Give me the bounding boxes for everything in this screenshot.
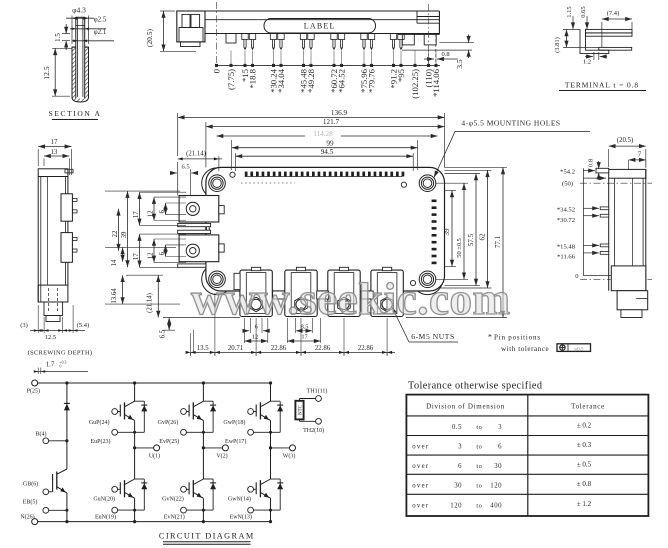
svg-text:17: 17: [301, 334, 307, 341]
svg-text:0.8: 0.8: [588, 158, 595, 167]
svg-text:39: 39: [443, 228, 451, 236]
svg-text:(102.25): (102.25): [410, 69, 420, 99]
svg-text:GB(6): GB(6): [23, 480, 38, 487]
svg-text:62: 62: [479, 233, 487, 241]
svg-text:6-M5 NUTS: 6-M5 NUTS: [411, 332, 455, 341]
svg-text:(50): (50): [562, 181, 573, 188]
svg-text:1.15: 1.15: [566, 6, 573, 17]
svg-text:to: to: [476, 444, 482, 451]
svg-text:TH1(11): TH1(11): [307, 387, 328, 394]
svg-text:EwP(17): EwP(17): [225, 438, 246, 445]
svg-text:121.7: 121.7: [323, 118, 340, 126]
svg-text:17: 17: [133, 211, 140, 218]
svg-text:*11.66: *11.66: [557, 254, 576, 261]
svg-text:www.seekic.com: www.seekic.com: [191, 274, 510, 324]
svg-text:(20.5): (20.5): [617, 137, 633, 144]
svg-text:13: 13: [51, 149, 58, 156]
svg-text:φ0.5: φ0.5: [574, 347, 584, 352]
svg-text:EuP(23): EuP(23): [91, 438, 111, 445]
svg-text:(3.81): (3.81): [554, 37, 561, 53]
svg-text:(7.75): (7.75): [226, 69, 236, 90]
svg-text:V(2): V(2): [216, 453, 227, 460]
svg-text:*114.06: *114.06: [431, 68, 441, 97]
svg-text:Tolerance: Tolerance: [571, 403, 605, 411]
svg-text:4-φ5.5 MOUNTING HOLES: 4-φ5.5 MOUNTING HOLES: [461, 119, 560, 128]
svg-text:0: 0: [60, 365, 62, 369]
svg-text:EvN(21): EvN(21): [164, 513, 185, 520]
svg-text:39: 39: [121, 231, 128, 238]
svg-text:22.86: 22.86: [358, 345, 374, 352]
svg-text:17: 17: [51, 139, 58, 146]
svg-text:22.86: 22.86: [271, 345, 287, 352]
svg-text:8.5: 8.5: [301, 323, 309, 330]
svg-text:12: 12: [148, 210, 155, 217]
svg-text:17: 17: [133, 253, 140, 260]
svg-text:114.28: 114.28: [313, 130, 333, 138]
svg-text:50 ±0.5: 50 ±0.5: [456, 238, 463, 257]
svg-text:6: 6: [159, 210, 166, 214]
svg-text:94.5: 94.5: [321, 148, 334, 156]
svg-text:GwP(18): GwP(18): [223, 419, 245, 426]
svg-text:to: to: [476, 483, 482, 490]
svg-text:Division of Dimension: Division of Dimension: [426, 403, 505, 411]
svg-text:30: 30: [454, 483, 462, 490]
svg-text:EB(5): EB(5): [23, 499, 38, 506]
svg-text:0.5: 0.5: [452, 424, 462, 431]
svg-text:0: 0: [211, 68, 221, 73]
svg-text:φ4.3: φ4.3: [72, 6, 86, 15]
svg-text:57.5: 57.5: [467, 233, 475, 246]
svg-text:(21.14): (21.14): [186, 150, 206, 157]
svg-text:12: 12: [148, 252, 155, 259]
svg-text:*18.8: *18.8: [247, 68, 257, 88]
svg-text:TH2(10): TH2(10): [303, 427, 324, 434]
svg-text:20.71: 20.71: [228, 345, 243, 352]
svg-text:6.5: 6.5: [160, 329, 167, 338]
svg-text:B(4): B(4): [36, 430, 47, 437]
svg-text:to: to: [476, 463, 482, 470]
svg-text:*95: *95: [396, 69, 406, 82]
svg-text:*79.76: *79.76: [366, 68, 376, 93]
svg-text:22: 22: [112, 230, 119, 237]
svg-text:1.5: 1.5: [54, 33, 62, 42]
svg-text:3: 3: [498, 424, 502, 431]
svg-text:± 0.3: ± 0.3: [577, 441, 592, 449]
svg-text:SECTION A: SECTION A: [49, 109, 102, 118]
svg-text:EuN(19): EuN(19): [95, 513, 116, 520]
svg-text:φ2.1: φ2.1: [94, 28, 107, 36]
svg-text:to: to: [476, 424, 482, 431]
svg-text:± 0.2: ± 0.2: [577, 421, 592, 429]
svg-text:± 0.8: ± 0.8: [577, 480, 592, 488]
svg-text:(SCREWING DEPTH): (SCREWING DEPTH): [28, 350, 93, 357]
svg-text:GwN(14): GwN(14): [228, 495, 251, 502]
svg-text:400: 400: [490, 503, 502, 510]
svg-text:φ2.5: φ2.5: [94, 16, 107, 24]
svg-text:± 1.2: ± 1.2: [577, 500, 592, 508]
svg-text:120: 120: [490, 483, 502, 490]
svg-text:NTC: NTC: [299, 404, 304, 415]
svg-text:(5.4): (5.4): [77, 322, 89, 329]
svg-text:13.5: 13.5: [197, 345, 209, 352]
svg-text:22.86: 22.86: [315, 345, 331, 352]
svg-text:12.5: 12.5: [45, 334, 56, 341]
svg-text:± 0.5: ± 0.5: [577, 461, 592, 469]
svg-text:EwN(13): EwN(13): [230, 513, 252, 520]
svg-text:120: 120: [450, 503, 462, 510]
svg-text:GuN(20): GuN(20): [93, 495, 115, 502]
svg-text:*49.28: *49.28: [306, 68, 316, 93]
svg-text:0.65: 0.65: [580, 6, 587, 17]
svg-text:over: over: [412, 503, 429, 510]
svg-text:EvP(25): EvP(25): [159, 438, 179, 445]
svg-text:TERMINAL t = 0.8: TERMINAL t = 0.8: [565, 81, 639, 90]
svg-text:CIRCUIT DIAGRAM: CIRCUIT DIAGRAM: [159, 532, 255, 541]
svg-text:7: 7: [638, 152, 642, 159]
svg-text:3.5: 3.5: [455, 59, 464, 69]
svg-text:LABEL: LABEL: [304, 22, 336, 31]
svg-text:0.8: 0.8: [441, 51, 449, 58]
svg-text:1.2: 1.2: [583, 59, 591, 66]
svg-text:13.64: 13.64: [111, 288, 118, 304]
svg-text:to: to: [476, 503, 482, 510]
svg-text:3: 3: [458, 444, 462, 451]
svg-text:GvP(26): GvP(26): [158, 419, 179, 426]
svg-text:14: 14: [111, 259, 118, 266]
svg-text:12.5: 12.5: [42, 66, 51, 79]
svg-text:over: over: [412, 463, 429, 470]
svg-text:6: 6: [498, 444, 502, 451]
svg-text:GvN(22): GvN(22): [162, 495, 184, 502]
svg-text:136.9: 136.9: [331, 109, 348, 117]
svg-text:6: 6: [255, 323, 258, 330]
svg-text:U(1): U(1): [149, 453, 160, 460]
svg-text:over: over: [412, 483, 429, 490]
svg-text:1.7: 1.7: [46, 361, 55, 369]
svg-text:6.5: 6.5: [181, 164, 189, 171]
svg-text:over: over: [412, 444, 429, 451]
svg-text:W(3): W(3): [283, 453, 296, 460]
svg-text:(20.5): (20.5): [145, 28, 154, 47]
svg-text:12: 12: [252, 334, 258, 341]
svg-text:with tolerance: with tolerance: [501, 345, 549, 353]
svg-text:GuP(24): GuP(24): [89, 419, 110, 426]
svg-text:*34.52: *34.52: [557, 207, 575, 214]
svg-text:30: 30: [494, 463, 502, 470]
svg-text:*30.72: *30.72: [557, 217, 575, 224]
svg-text:N(26): N(26): [20, 514, 34, 521]
svg-text:*64.52: *64.52: [336, 69, 346, 93]
svg-text:Tolerance otherwise specified: Tolerance otherwise specified: [408, 381, 543, 392]
svg-text:P(25): P(25): [27, 388, 40, 395]
svg-text:*: *: [488, 333, 492, 342]
svg-text:(3): (3): [20, 322, 28, 329]
svg-text:6: 6: [458, 463, 462, 470]
svg-text:(7.4): (7.4): [607, 10, 619, 17]
svg-text:*34.04: *34.04: [276, 68, 286, 93]
svg-text:77.1: 77.1: [494, 235, 502, 248]
svg-text:(21.14): (21.14): [147, 293, 154, 313]
svg-text:99: 99: [326, 139, 334, 147]
svg-text:*54.2: *54.2: [560, 169, 575, 176]
svg-text:6: 6: [159, 251, 166, 255]
svg-text:Pin positions: Pin positions: [494, 334, 541, 342]
svg-text:*15.48: *15.48: [557, 244, 576, 251]
